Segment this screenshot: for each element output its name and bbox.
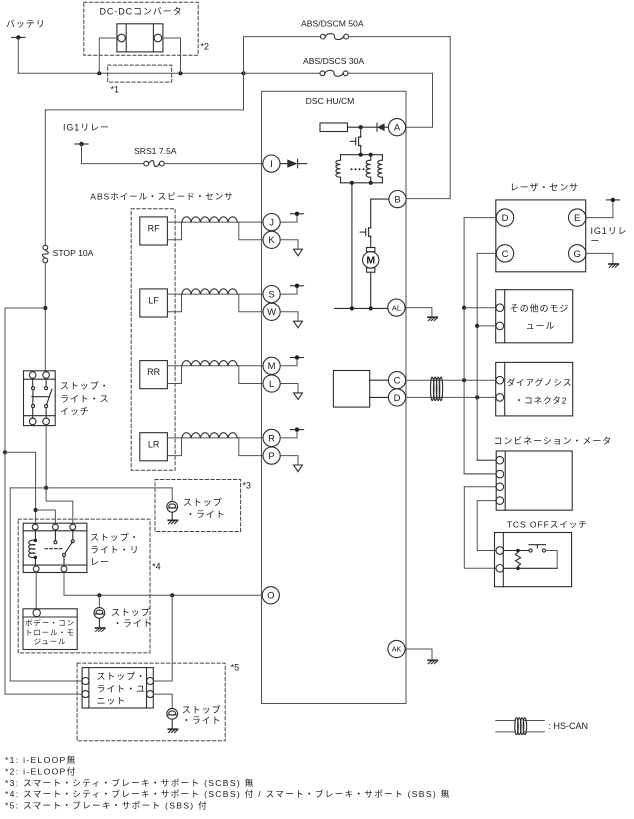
svg-text:STOP 10A: STOP 10A: [53, 248, 94, 258]
svg-text:・ライト: ・ライト: [182, 716, 222, 726]
svg-text:SRS1 7.5A: SRS1 7.5A: [134, 146, 177, 156]
svg-text:W: W: [267, 307, 276, 318]
svg-text:ジュール: ジュール: [34, 637, 67, 646]
svg-text:レー: レー: [90, 557, 110, 567]
svg-text:O: O: [267, 591, 274, 602]
svg-text:*1: *1: [111, 85, 120, 95]
svg-text:ニット: ニット: [97, 696, 127, 706]
svg-text:LR: LR: [148, 439, 160, 449]
svg-text:*5: *5: [231, 663, 240, 673]
svg-text:S: S: [268, 290, 274, 301]
svg-text:: HS-CAN: : HS-CAN: [549, 721, 589, 731]
svg-text:E: E: [574, 213, 580, 224]
svg-text:・コネクタ2: ・コネクタ2: [515, 396, 568, 406]
svg-text:J: J: [269, 218, 274, 229]
svg-text:ABS/DSCS 30A: ABS/DSCS 30A: [303, 56, 364, 66]
svg-text:ストップ・: ストップ・: [97, 672, 147, 682]
svg-text:D: D: [394, 393, 401, 404]
svg-text:M: M: [366, 255, 375, 267]
svg-text:*4: *4: [152, 562, 161, 572]
svg-text:バッテリ: バッテリ: [6, 19, 46, 29]
svg-text:L: L: [269, 379, 274, 390]
svg-text:G: G: [574, 249, 581, 260]
svg-text:ABS/DSCM 50A: ABS/DSCM 50A: [301, 19, 364, 29]
svg-text:AK: AK: [392, 645, 402, 654]
svg-text:ライト・ユ: ライト・ユ: [97, 684, 147, 694]
svg-text:トロール・モ: トロール・モ: [25, 628, 75, 637]
svg-text:その他のモジ: その他のモジ: [510, 303, 569, 314]
svg-text:ストップ・: ストップ・: [90, 533, 140, 543]
svg-text:R: R: [268, 433, 275, 444]
svg-text:A: A: [394, 123, 401, 134]
svg-text:*4: スマート・シティ・ブレーキ・サポート (SCBS): *4: スマート・シティ・ブレーキ・サポート (SCBS) 付 / スマート・ブ…: [5, 788, 451, 799]
svg-text:AL: AL: [392, 303, 401, 312]
svg-text:*3: スマート・シティ・ブレーキ・サポート (SCBS): *3: スマート・シティ・ブレーキ・サポート (SCBS) 無: [5, 777, 255, 788]
svg-text:ストップ: ストップ: [111, 608, 151, 618]
svg-text:K: K: [268, 235, 275, 246]
svg-text:ストップ・: ストップ・: [60, 381, 110, 391]
svg-text:・ライト: ・ライト: [186, 510, 226, 520]
svg-text:・ライト: ・ライト: [113, 619, 153, 629]
svg-text:*3: *3: [243, 481, 252, 491]
svg-text:ABSホイール・スピード・センサ: ABSホイール・スピード・センサ: [90, 192, 233, 202]
svg-text:ュール: ュール: [526, 321, 556, 331]
svg-text:C: C: [502, 249, 509, 260]
svg-text:ストップ: ストップ: [182, 705, 222, 715]
svg-text:C: C: [394, 376, 401, 387]
svg-text:I: I: [270, 159, 273, 170]
svg-text:*2: i-ELOOP付: *2: i-ELOOP付: [5, 766, 76, 776]
svg-text:ライト・リ: ライト・リ: [90, 545, 140, 555]
svg-text:*1: i-ELOOP無: *1: i-ELOOP無: [5, 754, 76, 765]
svg-text:ダイアグノシス: ダイアグノシス: [507, 376, 573, 387]
svg-text:D: D: [502, 213, 509, 224]
svg-text:*2: *2: [201, 42, 210, 52]
svg-text:ボデー・コン: ボデー・コン: [25, 619, 75, 628]
svg-text:*5: スマート・ブレーキ・サポート (SBS) 付: *5: スマート・ブレーキ・サポート (SBS) 付: [5, 800, 208, 811]
svg-text:ライト・ス: ライト・ス: [60, 394, 110, 404]
svg-text:M: M: [268, 361, 276, 372]
svg-text:IG1リレ: IG1リレ: [591, 226, 628, 236]
svg-text:RR: RR: [147, 367, 160, 377]
svg-text:B: B: [394, 195, 400, 206]
svg-text:IG1リレー: IG1リレー: [63, 123, 110, 133]
svg-text:DSC HU/CM: DSC HU/CM: [306, 96, 355, 106]
svg-text:LF: LF: [148, 296, 159, 306]
svg-text:コンビネーション・メータ: コンビネーション・メータ: [494, 436, 613, 446]
svg-text:ストップ: ストップ: [183, 498, 223, 508]
svg-text:RF: RF: [148, 224, 160, 234]
svg-text:TCS OFFスイッチ: TCS OFFスイッチ: [507, 520, 588, 530]
svg-text:ー: ー: [591, 236, 601, 246]
svg-text:レーザ・センサ: レーザ・センサ: [510, 183, 579, 193]
svg-text:P: P: [268, 451, 274, 462]
svg-text:イッチ: イッチ: [60, 407, 90, 417]
svg-text:DC-DCコンバータ: DC-DCコンバータ: [100, 7, 183, 17]
